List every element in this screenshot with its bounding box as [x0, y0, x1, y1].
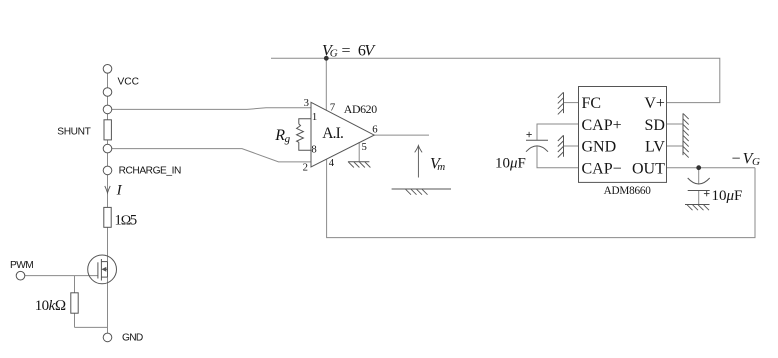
- svg-text:A.I.: A.I.: [322, 125, 343, 142]
- svg-text:ADM8660: ADM8660: [604, 185, 652, 197]
- svg-text:FC: FC: [582, 95, 602, 112]
- svg-text:VCC: VCC: [118, 77, 140, 88]
- svg-text:RCHARGE_IN: RCHARGE_IN: [119, 166, 181, 177]
- svg-text:m: m: [437, 161, 445, 173]
- svg-text:GND: GND: [122, 333, 143, 344]
- svg-text:4: 4: [329, 157, 335, 169]
- svg-text:G: G: [330, 48, 338, 60]
- svg-text:V+: V+: [644, 95, 665, 112]
- svg-text:G: G: [752, 156, 760, 168]
- svg-text:1: 1: [312, 111, 317, 123]
- svg-text:5: 5: [362, 141, 367, 153]
- svg-text:OUT: OUT: [632, 160, 665, 177]
- svg-text:2: 2: [303, 161, 308, 173]
- svg-text:AD620: AD620: [344, 102, 377, 116]
- svg-text:SHUNT: SHUNT: [57, 126, 90, 137]
- svg-text:CAP−: CAP−: [582, 160, 622, 177]
- svg-text:PWM: PWM: [10, 260, 33, 271]
- svg-text:10μF: 10μF: [495, 155, 526, 171]
- svg-text:7: 7: [330, 102, 336, 114]
- svg-text:10μF: 10μF: [712, 188, 743, 204]
- svg-text:5: 5: [130, 213, 137, 229]
- svg-text:−: −: [732, 150, 741, 167]
- svg-text:GND: GND: [582, 139, 617, 156]
- svg-text:SD: SD: [644, 117, 664, 134]
- svg-text:g: g: [285, 133, 291, 145]
- svg-text:CAP+: CAP+: [582, 117, 622, 134]
- svg-text:10kΩ: 10kΩ: [35, 298, 66, 314]
- svg-text:3: 3: [304, 97, 309, 109]
- svg-text:8: 8: [311, 143, 316, 155]
- svg-text:LV: LV: [645, 139, 665, 156]
- svg-text:I: I: [116, 183, 123, 199]
- svg-text:=: =: [342, 42, 351, 59]
- svg-text:6: 6: [372, 124, 378, 136]
